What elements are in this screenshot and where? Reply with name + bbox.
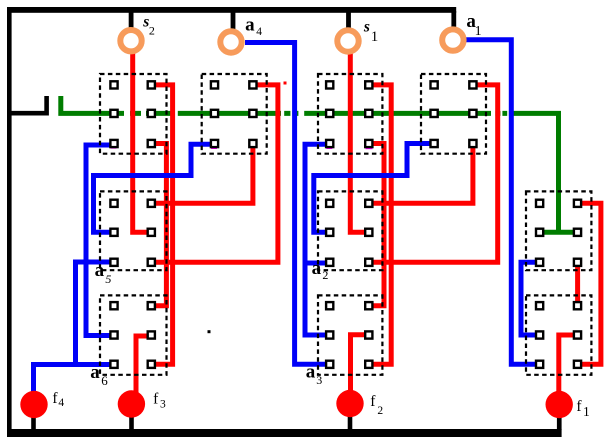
wire: blue f4 to a6 bottom-left pin (34, 365, 113, 393)
terminal s2 (orange ring) (120, 30, 141, 51)
wire: blue B12 bottom-left pin to a5 middle-left pin (94, 144, 214, 232)
cell B14 dashed box (421, 74, 486, 154)
wire: black stem under f2 (348, 413, 353, 430)
wire: red B11 bottom-right pin to a6 top-right pin (153, 144, 166, 306)
pins of cell f1 (536, 302, 581, 368)
cell B11 dashed box (100, 74, 167, 154)
wire: red f1-cell middle-right pin down to f1 (559, 335, 576, 396)
wire: red from s2 down to a5 middle-right pin (133, 52, 148, 232)
wire: blue B14 bottom-left pin to a2 middle-left pin (314, 144, 432, 233)
output f1 (red disc) (546, 391, 573, 418)
wire: red from s1 down to a2 middle-right pin (350, 52, 365, 232)
wire: black top rail (7, 7, 456, 13)
magenta pin specks (110, 146, 542, 369)
svg-text:a: a (95, 260, 105, 281)
cell a6 dashed box (100, 295, 167, 374)
wire: red a3 middle-right pin down to f2 (351, 335, 368, 396)
svg-text:1: 1 (371, 29, 379, 45)
wire: black drop to s1 (346, 11, 351, 28)
svg-text:1: 1 (583, 404, 590, 419)
wire: black stem under f1 (557, 415, 562, 430)
wire: black drop to s2 (129, 11, 134, 28)
wire: black stem under f3 (129, 414, 134, 430)
wire: blue from a4 down to a3 bottom-left pin (245, 43, 328, 365)
svg-text:2: 2 (149, 24, 155, 38)
wire: green link across middle pins of cell B24 (540, 230, 577, 235)
wire: black drop to a1 (451, 11, 456, 27)
wire: red B24 top-right pin to f1-cell bottom-right pin (578, 203, 601, 364)
pins of cell a6 (110, 302, 154, 368)
wire: red B12 top-right pin to a5 bottom-right pin (153, 85, 278, 262)
cell f1 dashed box (526, 295, 591, 374)
wire: blue B13 bottom-left pin to a3 middle-left pin (305, 144, 328, 335)
svg-text:1: 1 (475, 24, 482, 39)
red speck (284, 82, 287, 85)
svg-text:4: 4 (58, 397, 64, 409)
svg-text:f: f (153, 391, 159, 408)
wire: blue B24 bottom-left pin to f1-cell middle-left pin (521, 262, 538, 335)
svg-text:f: f (370, 393, 376, 410)
wire: red B11 top-right pin to a6 bottom-right pin (153, 85, 173, 364)
pins of cell B24 (536, 200, 581, 266)
svg-text:3: 3 (316, 373, 322, 387)
wire: black bottom rail (7, 429, 562, 437)
wire: green control rail from hook across figure (61, 96, 561, 113)
cell B24 dashed box (526, 191, 591, 270)
svg-text:a: a (90, 362, 100, 383)
wire: red a6 middle-right pin down to f3 (136, 336, 150, 396)
cell B12 dashed box (202, 74, 267, 154)
wire: red B14 bottom-right pin to a2 top-right pin (370, 144, 473, 204)
cell a5 dashed box (100, 191, 167, 270)
terminal s1 (orange ring) (337, 30, 358, 51)
pins of cell B14 (431, 81, 477, 147)
svg-text:4: 4 (256, 26, 262, 38)
wire: black left rail (7, 7, 12, 437)
terminal a1 (orange ring) (442, 29, 463, 50)
wire: blue B11 bottom-left pin to a6 middle-left pin (86, 145, 112, 336)
green rail dash gaps (124, 110, 509, 116)
output f3 (red disc) (118, 390, 145, 417)
pins of cell B12 (211, 81, 257, 147)
wire: blue from a1 down to f1-cell bottom-left pin (466, 40, 538, 365)
wire: red B13 top-right pin to a3 bottom-right pin (369, 85, 391, 364)
wire: black hook stub on left border (9, 96, 47, 113)
output f4 (red disc) (20, 391, 47, 418)
svg-text:a: a (312, 258, 322, 279)
svg-text:a: a (245, 15, 255, 36)
svg-text:5: 5 (105, 272, 111, 286)
wire: black drop to a4 (231, 11, 236, 30)
svg-text:f: f (576, 398, 582, 415)
wire: red B24 bottom-right pin to f1-cell top-right pin (575, 262, 580, 305)
pins of cell B13 (326, 81, 372, 147)
wire: blue branch to a2 bottom-left pin (305, 261, 328, 266)
cell a3 dashed box (318, 295, 382, 374)
wire: red B12 bottom-right pin to a5 top-right pin (153, 144, 253, 204)
wire: green drop to cell B24 (556, 112, 561, 232)
cell B13 dashed box (318, 74, 382, 154)
wire: blue a5 bottom-left pin to junction (76, 262, 113, 365)
wire: black stem under f4 (31, 415, 36, 430)
wire: red B13 bottom-right pin to a3 top-right pin (369, 144, 384, 306)
svg-text:2: 2 (377, 405, 383, 417)
output f2 (red disc) (336, 390, 363, 417)
pins of cell a2 (326, 200, 372, 266)
svg-text:2: 2 (322, 268, 328, 282)
svg-text:3: 3 (160, 398, 166, 410)
cell a2 dashed box (318, 191, 382, 270)
pins of cell a5 (110, 200, 154, 266)
stray black dot (208, 330, 211, 333)
pins of cell B11 (110, 81, 154, 147)
svg-text:s: s (363, 18, 370, 35)
svg-text:6: 6 (101, 373, 108, 388)
pins of cell a3 (326, 302, 372, 368)
wire: red B14 top-right pin to a2 bottom-right pin (370, 85, 498, 262)
svg-text:a: a (306, 361, 316, 382)
terminal a4 (orange ring) (220, 31, 241, 52)
